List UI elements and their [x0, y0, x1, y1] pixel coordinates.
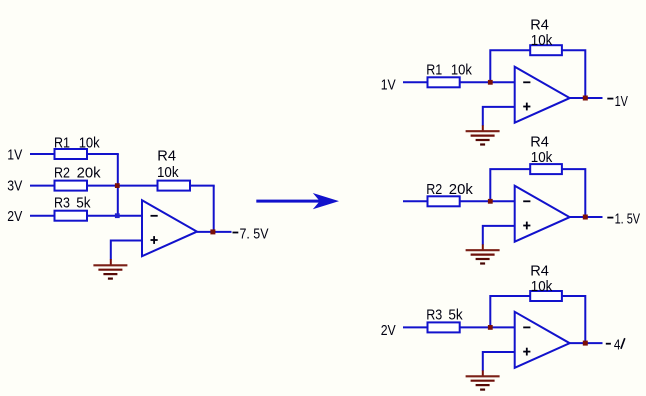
svg-text:10k: 10k: [451, 62, 472, 79]
svg-text:R4: R4: [530, 134, 549, 151]
svg-text:1V: 1V: [7, 147, 22, 164]
svg-text:R2: R2: [54, 165, 70, 182]
svg-text:R2: R2: [426, 181, 442, 198]
svg-text:R4: R4: [530, 263, 549, 280]
svg-text:10k: 10k: [531, 149, 553, 166]
svg-text:R3: R3: [54, 195, 70, 212]
svg-text:7. 5V: 7. 5V: [240, 226, 269, 243]
svg-text:1V: 1V: [381, 77, 396, 94]
svg-text:5k: 5k: [76, 195, 91, 212]
svg-text:20k: 20k: [449, 181, 473, 198]
svg-text:20k: 20k: [77, 165, 101, 182]
svg-text:10k: 10k: [531, 278, 553, 295]
svg-text:1V: 1V: [615, 93, 628, 110]
svg-text:2V: 2V: [381, 322, 396, 339]
svg-text:5k: 5k: [448, 307, 463, 324]
svg-text:10k: 10k: [79, 135, 100, 152]
svg-text:R1: R1: [426, 62, 442, 79]
svg-text:1. 5V: 1. 5V: [615, 211, 640, 228]
svg-text:R3: R3: [426, 307, 442, 324]
svg-text:4: 4: [614, 337, 621, 354]
svg-text:10k: 10k: [531, 32, 553, 49]
svg-text:R4: R4: [530, 17, 549, 34]
svg-text:3V: 3V: [7, 178, 22, 195]
svg-text:2V: 2V: [7, 208, 22, 225]
svg-text:10k: 10k: [157, 164, 179, 181]
svg-text:R1: R1: [54, 135, 70, 152]
svg-text:R4: R4: [157, 148, 176, 165]
